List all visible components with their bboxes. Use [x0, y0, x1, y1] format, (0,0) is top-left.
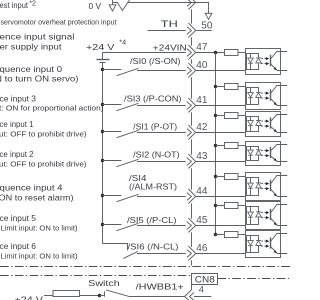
wire bus to switch /SI3: [103, 104, 122, 106]
svg-text:ce input 5: ce input 5: [0, 213, 36, 223]
wire bus to resistor R6: [216, 205, 225, 207]
wire pin 45 to optocoupler: [196, 225, 246, 227]
svg-text:servomotor overheat protection: servomotor overheat protection input: [1, 19, 117, 26]
wire R4 to optocoupler: [238, 145, 246, 147]
CN1 pin 44 chevron: [187, 193, 192, 201]
svg-text:+24VIN: +24VIN: [153, 43, 187, 53]
svg-text:45: 45: [196, 215, 208, 226]
wire 0V dip segment: [113, 0, 130, 11]
+24V feed bus (vertical): [215, 53, 217, 235]
wire R3 to optocoupler: [238, 115, 246, 117]
svg-text:4: 4: [199, 283, 204, 294]
optocoupler PC3 (/SI1 input): [246, 112, 288, 137]
optocoupler PC4 (/SI2 input): [246, 142, 288, 166]
svg-text:quence input 4: quence input 4: [0, 183, 63, 193]
switch /SI3 blade: [117, 103, 139, 110]
wire pin 50 stub: [196, 30, 212, 32]
CN1 connector body line: [191, 9, 193, 265]
svg-text:ce input 6: ce input 6: [0, 241, 36, 251]
switch /SI5 blade: [117, 223, 139, 230]
CN1 pin 47 chevron: [187, 49, 192, 57]
junction bus to switch /SI5: [101, 223, 104, 226]
section divider (dash-dot lower left): [0, 275, 192, 277]
junction bus resistor row 4: [214, 144, 217, 147]
wire 0V to CN1: [128, 3, 208, 14]
svg-text:/HWBB1+: /HWBB1+: [136, 281, 184, 291]
svg-text:/SI0 (/S-ON): /SI0 (/S-ON): [130, 56, 181, 66]
svg-text:+24 V: +24 V: [15, 295, 44, 300]
switch supply bus (vertical): [102, 64, 104, 244]
svg-text:/SI3 (/P-CON): /SI3 (/P-CON): [124, 93, 182, 103]
svg-text:ce input 3: ce input 3: [0, 94, 36, 104]
svg-text:ON to reset alarm): ON to reset alarm): [0, 192, 74, 202]
CN1 pin chevron (0V line): [187, 0, 192, 6]
svg-text:Switch: Switch: [88, 278, 120, 288]
svg-text:ut: OFF to prohibit drive): ut: OFF to prohibit drive): [0, 131, 87, 138]
wire R6 to optocoupler: [238, 205, 246, 207]
junction +24V bus top: [214, 51, 217, 54]
optocoupler PC1 (/SI0 input): [246, 49, 288, 75]
wire pin 41 to optocoupler: [196, 105, 246, 107]
svg-text:quence input 0: quence input 0: [0, 64, 62, 74]
svg-text:44: 44: [196, 186, 208, 197]
svg-text:ce input 2: ce input 2: [0, 149, 34, 159]
junction bus to switch /SI3: [101, 103, 104, 106]
wire /SI0 to CN1 pin 40: [137, 70, 186, 72]
junction bus to switch /SI2: [101, 159, 104, 162]
wire /SI2 to CN1 pin 43: [137, 161, 186, 163]
CN8 connector label box: [192, 274, 218, 285]
wire pin 44 to optocoupler: [196, 196, 246, 198]
CN8 connector body line: [191, 285, 193, 290]
svg-text:Limit input: ON to limit): Limit input: ON to limit): [1, 225, 78, 232]
junction bus to switch /SI0: [101, 68, 104, 71]
wire /SI6 to CN1 pin 46: [137, 253, 186, 255]
svg-text:/SI5 (/P-CL): /SI5 (/P-CL): [127, 215, 177, 225]
wire bus to resistor R3: [216, 115, 225, 117]
wire bus to switch /SI1: [103, 131, 122, 133]
junction bus to switch /SI4: [101, 194, 104, 197]
svg-text:TH: TH: [161, 19, 178, 29]
optocoupler PC5 (/SI4 input): [246, 173, 288, 201]
optocoupler PC2 (/SI3 input): [246, 83, 288, 110]
wire R7 to optocoupler: [238, 234, 246, 236]
svg-text:40: 40: [196, 60, 208, 71]
switch /SI0 blade: [117, 68, 139, 75]
wire HWBB1+ to CN8: [129, 296, 185, 298]
svg-text:/SI6 (/N-CL): /SI6 (/N-CL): [128, 242, 179, 252]
svg-text:ut: OFF to prohibit drive): ut: OFF to prohibit drive): [0, 161, 87, 168]
section divider (dash-dot lower right): [218, 278, 292, 280]
wire pin 40 to optocoupler: [196, 70, 246, 72]
switch /SI4 blade: [117, 194, 139, 201]
svg-text:*2: *2: [29, 1, 36, 8]
CN1 pin 42 chevron: [187, 129, 192, 137]
wire R5 to optocoupler: [238, 176, 246, 178]
wire bus jog to switch /SI6: [103, 244, 128, 251]
resistor R7: [225, 232, 239, 238]
svg-text:/SI1 (P-OT): /SI1 (P-OT): [133, 122, 177, 132]
section divider (dash-dot upper): [0, 266, 291, 268]
wire bus to switch /SI5: [103, 224, 122, 226]
svg-text:/SI2 (N-OT): /SI2 (N-OT): [133, 150, 180, 160]
wire pin 46 to optocoupler: [196, 253, 246, 255]
CN1 pin 45 chevron: [187, 222, 192, 230]
resistor R6: [225, 203, 239, 209]
junction bus to switch /SI1: [101, 130, 104, 133]
junction bus resistor row 2: [214, 85, 217, 88]
wire bus to resistor R2: [216, 86, 225, 88]
resistor R8 (HWBB): [53, 291, 80, 297]
CN1 pin 50 chevron: [187, 27, 192, 35]
svg-text:N to turn ON servo): N to turn ON servo): [0, 74, 79, 84]
CN8 pin 4 chevron: [189, 293, 194, 300]
wire TH to CN1: [148, 30, 186, 32]
wire bus to resistor R5: [216, 176, 225, 178]
junction bus resistor row 7: [214, 233, 217, 236]
wire /SI1 to CN1 pin 42: [137, 132, 186, 134]
wire bus to switch /SI0: [103, 69, 122, 71]
optocoupler PC7 (/SI6 input): [246, 231, 288, 258]
switch HWBB fixed contact tick: [104, 291, 106, 296]
wire bus to resistor R7: [216, 234, 225, 236]
svg-text:ce input 1: ce input 1: [0, 119, 34, 129]
ground 0V symbol (right): [205, 13, 212, 19]
svg-text:43: 43: [196, 151, 208, 162]
resistor R1: [225, 50, 239, 56]
svg-text:0 V: 0 V: [89, 1, 102, 11]
switch /SI2 blade: [117, 159, 139, 166]
svg-text:er supply input: er supply input: [0, 41, 62, 51]
wire HWBB supply: [44, 295, 100, 297]
wire CN8 pin 4 stub: [194, 296, 211, 298]
junction bus resistor row 6: [214, 204, 217, 207]
ground 0V symbol (left): [112, 0, 114, 5]
wire bus to switch /SI4: [103, 195, 122, 197]
CN1 pin 46 chevron: [187, 250, 192, 258]
svg-text:Limit input: ON to limit): Limit input: ON to limit): [1, 253, 78, 260]
wire pin 43 to optocoupler: [196, 161, 246, 163]
svg-text:41: 41: [196, 95, 208, 106]
svg-text:46: 46: [196, 243, 208, 254]
optocoupler PC6 (/SI5 input): [246, 202, 288, 230]
wire bus to resistor R4: [216, 145, 225, 147]
wire pin 42 to optocoupler: [196, 132, 246, 134]
wire R1 to optocoupler: [238, 52, 246, 54]
wire pin 47 to junction: [196, 52, 225, 54]
svg-text:t: ON for proportional action): t: ON for proportional action): [0, 105, 104, 112]
svg-text:est input: est input: [0, 0, 29, 10]
battery +24V supply: [97, 59, 110, 61]
resistor R2: [225, 84, 239, 90]
switch HWBB blade: [106, 290, 129, 297]
wire R2 to optocoupler: [238, 86, 246, 88]
junction HWBB switch: [98, 294, 101, 297]
switch /SI6 blade: [123, 251, 138, 258]
svg-text:+24 V: +24 V: [86, 42, 115, 52]
switch /SI1 blade: [117, 130, 139, 137]
wire /SI3 to CN1 pin 41: [137, 105, 186, 107]
wire /SI4 to CN1 pin 44: [137, 196, 186, 198]
CN1 pin 41 chevron: [187, 102, 192, 110]
CN1 pin 43 chevron: [187, 158, 192, 166]
wire bus to switch /SI2: [103, 160, 122, 162]
junction bus resistor row 5: [214, 175, 217, 178]
svg-text:42: 42: [196, 122, 208, 133]
resistor R5: [225, 174, 239, 180]
svg-text:47: 47: [196, 42, 208, 53]
svg-text:*4: *4: [119, 38, 126, 47]
svg-text:ence input signal: ence input signal: [0, 31, 75, 41]
wire /SI5 to CN1 pin 45: [137, 225, 186, 227]
junction bus resistor row 3: [214, 114, 217, 117]
wire HWBB contact stub: [100, 295, 105, 297]
svg-text:(/ALM-RST): (/ALM-RST): [129, 182, 177, 192]
resistor R3: [225, 113, 239, 119]
wire +24V to pin 47: [103, 52, 186, 54]
CN1 pin 40 chevron: [187, 67, 192, 75]
resistor R4: [225, 143, 239, 149]
svg-text:50: 50: [201, 20, 213, 31]
